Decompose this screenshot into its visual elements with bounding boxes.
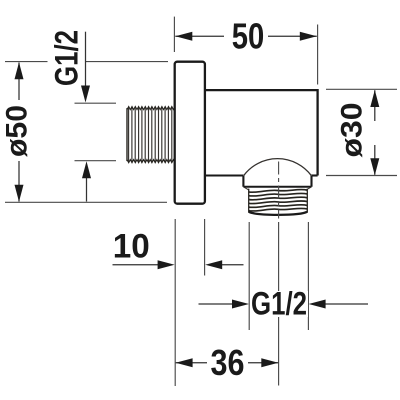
dim G1/2 bottom: right arrow line [325,303,368,305]
dim 10: left arrow line [113,264,159,266]
dim G1/2 top: upper extension line (pipe top) [75,102,117,104]
dim o50: dimension line [18,63,20,202]
dim o30: top extension line [326,88,397,90]
collar chamfers [244,187,311,190]
dim o30 top arrow [370,90,379,107]
dim 10: right extension line [204,219,206,276]
dim G1/2 top down arrow [81,86,90,103]
dim 50: right extension line [317,25,319,85]
outlet thread nipple G1/2 [249,190,308,193]
dim 36 left arrow [176,358,193,367]
dim G1/2 top: up arrow line [86,177,88,202]
outlet collar [243,176,311,187]
svg-text:ø30: ø30 [336,103,369,158]
dim G1/2 top up arrow [82,161,91,178]
dim 50 right arrow [300,32,317,41]
dim o50: bottom extension line [5,201,167,203]
dome arc over outlet [244,159,311,176]
dim G1/2 bottom: label [250,291,308,317]
dim G1/2 bottom: right extension line [307,222,309,330]
svg-text:50: 50 [232,15,265,56]
body (elbow housing) [205,90,318,175]
dim 50: dimension line [175,35,316,37]
dim G1/2 bottom left arrow (points right) [232,300,249,309]
dim o30 bottom arrow [370,158,379,175]
dim o50 top arrow [15,62,24,79]
inlet threaded pipe G1/2 [127,106,175,163]
svg-text:10: 10 [113,228,150,266]
dim G1/2 bottom: left arrow line [199,303,233,305]
dim G1/2 bottom right arrow (points left) [309,300,326,309]
dim G1/2 top: down arrow line [85,32,87,86]
dim 10 right arrow (points left) [205,260,222,269]
body bottom edge right segment [312,174,318,176]
dim 36 right arrow [261,358,278,367]
dim 10: right arrow line [222,264,244,266]
dim 10 left arrow (points right) [158,260,175,269]
svg-text:ø50: ø50 [0,105,33,157]
body bottom edge left segment [205,174,244,176]
dim 10: left extension line (shared with 36) [174,219,176,386]
svg-text:G1/2: G1/2 [251,286,307,322]
dim G1/2 bottom: left extension line [248,222,250,330]
dim o30: dimension line [374,90,376,175]
svg-text:36: 36 [211,342,245,383]
dim 50: left extension line [173,17,175,52]
wall flange [175,62,205,204]
svg-text:G1/2: G1/2 [49,30,85,86]
dim o50: top extension line [5,61,168,63]
dim o50 bottom arrow [15,185,24,202]
dim G1/2 top: lower extension line (pipe bottom) [75,160,117,162]
dim 50 left arrow [175,32,192,41]
dim o30: bottom extension line [326,175,397,177]
outlet centerline [278,162,280,219]
dim 36: dimension line [176,362,279,364]
